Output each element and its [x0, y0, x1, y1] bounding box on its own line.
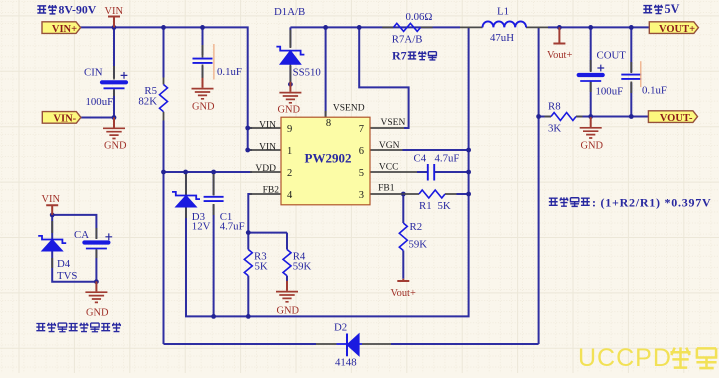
capacitor C4 4.7uF (vertical plates): [414, 153, 460, 181]
svg-text:COUT: COUT: [597, 50, 627, 62]
svg-text:12V: 12V: [192, 221, 211, 233]
node VIN- node: [112, 115, 117, 120]
svg-text:1: 1: [287, 146, 292, 157]
svg-text:Vout+: Vout+: [547, 50, 572, 61]
diode D4 TVS (cathode up): [38, 236, 77, 282]
svg-text:4: 4: [287, 190, 293, 201]
svg-text:D1A/B: D1A/B: [274, 6, 305, 18]
port VOUT-: [648, 111, 697, 124]
svg-text:R1: R1: [419, 200, 432, 212]
diode D1A/B SS510 (schottky, cathode up): [274, 6, 321, 79]
port VIN-: [42, 112, 81, 125]
node 0.1uF in: [200, 25, 205, 30]
wire: FB1 pin3 to R1 to SW column: [457, 193, 469, 195]
svg-text:8: 8: [326, 118, 331, 129]
svg-text:8V-90V: 8V-90V: [59, 3, 97, 17]
ground under CIN: [103, 118, 127, 152]
diode D3 12V (cathode up): [172, 192, 211, 233]
node COUT bottom: [588, 114, 593, 119]
wire: pin8 VSEND vertical: [325, 27, 327, 117]
svg-text:5K: 5K: [438, 200, 451, 212]
svg-text:0.06Ω: 0.06Ω: [406, 11, 433, 23]
wire: pin9 VIN left wire: [248, 127, 252, 129]
annotation 吸收输入尖峰电压: [36, 323, 45, 330]
svg-text:GND: GND: [278, 104, 301, 115]
node VDD-C1: [211, 170, 216, 175]
capacitor CA: [74, 229, 112, 249]
svg-text:VIN: VIN: [105, 6, 124, 17]
wire: C1 column: [213, 172, 215, 316]
resistor R5: [138, 85, 167, 112]
svg-text:VSEND: VSEND: [333, 104, 365, 114]
component pin leads (black): [52, 27, 631, 344]
annotation 输出电压：（1+R2/R1）*0.397V: [549, 198, 558, 205]
node 0.1uF out top: [629, 25, 634, 30]
resistor R3: [244, 250, 268, 276]
node pin9: [245, 126, 250, 131]
op-amp U1 PW2902 (IC body): [281, 117, 370, 205]
svg-text:SS510: SS510: [293, 67, 321, 79]
svg-text:GND: GND: [277, 306, 300, 317]
node VDD-D3: [183, 170, 188, 175]
svg-text:Vout+: Vout+: [391, 288, 416, 299]
node VSEN loop: [357, 25, 362, 30]
svg-text:GND: GND: [192, 102, 215, 113]
svg-text:GND: GND: [581, 140, 604, 151]
wire: CIN column x=114: [113, 27, 115, 117]
wire: D4/CA top link: [52, 215, 96, 239]
resistor R7A/B 0.06ohm: [392, 11, 433, 46]
svg-text:L1: L1: [497, 6, 509, 18]
inductor L1 47uH: [483, 6, 527, 45]
marker line near input 0.1uF: [213, 44, 215, 80]
svg-text:VIN+: VIN+: [52, 24, 77, 35]
node COUT top: [588, 25, 593, 30]
node SW-VGN: [466, 148, 471, 153]
port VOUT+: [649, 22, 698, 35]
svg-text:100uF: 100uF: [86, 96, 114, 108]
wire: output 0.1uF column: [630, 27, 632, 116]
diode D2 4148 (pointing left): [334, 322, 362, 369]
svg-text:100uF: 100uF: [596, 86, 624, 98]
wire: SW column x=468.6: [186, 27, 469, 316]
capacitor C1 4.7uF: [204, 197, 245, 233]
node C1 bottom: [211, 314, 216, 319]
svg-text:VOUT+: VOUT+: [659, 24, 695, 35]
ground under 0.1uF input: [192, 78, 216, 113]
svg-text:VCC: VCC: [379, 163, 399, 173]
svg-text:0.1uF: 0.1uF: [642, 85, 667, 97]
svg-text:VSEN: VSEN: [381, 118, 406, 128]
svg-text:5K: 5K: [255, 261, 268, 273]
wire: rail L1 to VOUT+ port: [548, 26, 649, 28]
svg-text:4.7uF: 4.7uF: [435, 153, 460, 165]
svg-text:C4: C4: [414, 153, 427, 165]
wire: VCC pin5 to C4: [417, 171, 469, 173]
wire: CA bottom: [95, 250, 97, 282]
annotation 输入8V-90V: [37, 6, 46, 13]
node SW-R1: [466, 192, 471, 197]
svg-text:D2: D2: [334, 322, 347, 334]
svg-text:VGN: VGN: [379, 141, 400, 151]
chip pin stubs: [250, 111, 417, 194]
node SW-C4: [466, 170, 471, 175]
wire: VIN+ top rail from port to VIN-pin column corner: [81, 27, 248, 150]
capacitor 0.1uF input: [193, 59, 242, 78]
wire: R5 vertical column x=163.5: [163, 27, 165, 344]
power VIN at D4: [42, 194, 61, 215]
wire: R4 column: [286, 233, 288, 290]
node 0.1uF out bottom: [629, 114, 634, 119]
node VDD-R5: [161, 170, 166, 175]
resistor R1: [419, 190, 451, 212]
ground under SS510: [278, 82, 302, 116]
svg-text:6: 6: [359, 146, 364, 157]
marker line near output 0.1uF: [640, 61, 642, 87]
annotation 输出5V: [643, 6, 652, 13]
node R8 left: [536, 114, 541, 119]
resistor R8: [548, 100, 576, 134]
svg-text:R7: R7: [392, 49, 407, 63]
svg-text:5: 5: [359, 168, 364, 179]
svg-text:4.7uF: 4.7uF: [220, 221, 245, 233]
wire: COUT column: [590, 27, 592, 116]
svg-text:R7A/B: R7A/B: [392, 34, 423, 46]
node CA-D4 bottom: [94, 279, 99, 284]
svg-text:59K: 59K: [409, 239, 428, 251]
svg-text:2: 2: [287, 168, 292, 179]
node pin1: [245, 148, 250, 153]
wire: bottom D2 run y=344: [164, 343, 539, 345]
svg-text:VIN: VIN: [42, 194, 61, 205]
node VIN/CIN: [112, 25, 117, 30]
svg-text:FB2: FB2: [263, 186, 280, 196]
svg-text:82K: 82K: [138, 96, 157, 108]
svg-text:VIN: VIN: [259, 142, 276, 152]
ground under R4: [276, 281, 300, 317]
watermark UCCPD论坛: [578, 344, 717, 372]
svg-text:3K: 3K: [548, 122, 561, 134]
svg-text:CIN: CIN: [84, 67, 103, 79]
svg-text:PW2902: PW2902: [305, 151, 352, 166]
node VIN-D4: [50, 213, 55, 218]
svg-text:3: 3: [359, 190, 364, 201]
svg-text:TVS: TVS: [57, 270, 77, 282]
svg-text:59K: 59K: [293, 261, 312, 273]
power Vout+ output: [547, 27, 572, 61]
svg-text:GND: GND: [86, 307, 109, 318]
svg-text:VOUT-: VOUT-: [660, 113, 693, 124]
svg-text:: (1+R2/R1) *0.397V: : (1+R2/R1) *0.397V: [592, 195, 711, 209]
wire: VDD line pin2: [164, 171, 253, 173]
wire: pin1 VIN left wire: [248, 149, 252, 151]
svg-text:R2: R2: [410, 221, 423, 233]
wire: VGN pin6 to SW column: [403, 149, 469, 151]
wire: output bottom rail: [539, 116, 649, 118]
wire: D4 column: [52, 215, 96, 282]
wire: FB2 line pin4 down to R3/R4: [248, 194, 287, 233]
wire: R3 column: [247, 233, 249, 317]
svg-text:R8: R8: [548, 100, 561, 112]
port VIN+: [42, 22, 81, 35]
svg-text:47uH: 47uH: [490, 32, 514, 44]
node R3 bottom: [246, 314, 251, 319]
node pin8: [323, 25, 328, 30]
svg-text:7: 7: [359, 124, 364, 135]
capacitor 0.1uF output: [621, 75, 667, 97]
wire: SS510 column: [289, 27, 291, 84]
svg-text:5V: 5V: [665, 2, 680, 16]
ground under CA: [85, 281, 109, 318]
node FB2 node: [246, 230, 251, 235]
svg-text:VIN-: VIN-: [53, 114, 76, 125]
wire: switch rail SS510 to L1: [290, 26, 460, 28]
node R5 top: [161, 25, 166, 30]
wire: VSEN loop: [359, 27, 408, 128]
svg-text:9: 9: [287, 124, 292, 135]
power Vout+ under R2: [391, 279, 416, 299]
svg-text:VIN: VIN: [259, 120, 276, 130]
wire: bootstrap right column x=538.6: [538, 27, 540, 344]
capacitor COUT 100uF: [579, 50, 627, 98]
wire: 0.1uF input column x=202.5: [202, 27, 204, 78]
node FB1-R2: [401, 192, 406, 197]
capacitor CIN 100uF: [84, 67, 127, 109]
node Vout+: [557, 25, 562, 30]
ground under COUT: [580, 117, 604, 151]
svg-text:CA: CA: [74, 229, 89, 241]
wire: VIN- port to junction: [81, 117, 114, 119]
resistor R4: [283, 250, 311, 276]
svg-text:4148: 4148: [335, 357, 357, 369]
node SS510 anode: [288, 82, 293, 87]
svg-text:UCCPD: UCCPD: [578, 344, 672, 372]
resistor R2: [399, 221, 427, 251]
svg-text:0.1uF: 0.1uF: [217, 66, 242, 78]
svg-text:FB1: FB1: [378, 184, 395, 194]
svg-text:GND: GND: [104, 141, 127, 152]
svg-text:D4: D4: [57, 258, 71, 270]
power VIN top: [105, 6, 124, 27]
svg-text:VDD: VDD: [255, 164, 276, 174]
wire: R2 column: [402, 194, 404, 279]
wire: D3 column top: [185, 172, 187, 196]
